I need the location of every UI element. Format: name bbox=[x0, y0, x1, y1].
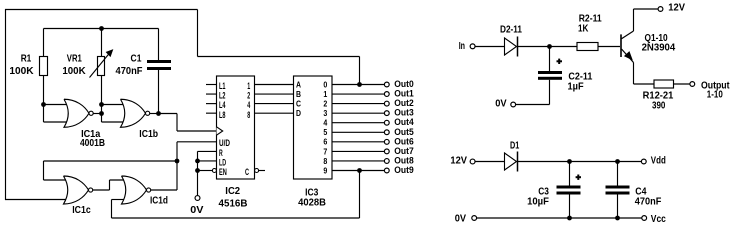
node: C4 bottom bbox=[615, 216, 620, 221]
svg-text:IC1c: IC1c bbox=[72, 204, 91, 216]
svg-text:100K: 100K bbox=[9, 65, 34, 77]
wires: IC3 outputs to Out terminals bbox=[332, 85, 385, 171]
svg-text:IC2: IC2 bbox=[225, 185, 240, 197]
svg-text:12V: 12V bbox=[450, 155, 467, 167]
terminal Out5 bbox=[384, 127, 413, 137]
node: R1 bottom / IC1a inputs bbox=[41, 102, 46, 107]
svg-text:470nF: 470nF bbox=[635, 195, 662, 207]
pin labels A B C D bbox=[296, 80, 301, 118]
svg-text:390: 390 bbox=[652, 99, 666, 111]
svg-text:Out7: Out7 bbox=[394, 146, 413, 156]
node: C3 top bbox=[567, 159, 572, 164]
terminal Output 1-10 bbox=[690, 79, 730, 100]
svg-text:3: 3 bbox=[323, 109, 327, 118]
wire: IC1a output to IC1b inputs bbox=[93, 105, 126, 123]
svg-text:0: 0 bbox=[323, 80, 327, 89]
op-amp gate IC1a (NOR 4001B) bbox=[64, 99, 105, 149]
svg-text:1: 1 bbox=[323, 90, 327, 99]
svg-text:Out2: Out2 bbox=[394, 98, 413, 108]
svg-text:1: 1 bbox=[247, 81, 250, 91]
resistor R12-21 390 bbox=[643, 80, 674, 111]
svg-text:4001B: 4001B bbox=[80, 137, 105, 149]
IC U3: decoder IC3 4028B box bbox=[294, 76, 333, 208]
svg-text:U/D: U/D bbox=[219, 138, 230, 148]
svg-text:9: 9 bbox=[323, 166, 327, 175]
svg-text:4: 4 bbox=[247, 100, 250, 110]
terminal 12V (top) bbox=[658, 2, 685, 14]
svg-text:Out9: Out9 bbox=[394, 165, 413, 175]
svg-text:D2-11: D2-11 bbox=[500, 23, 522, 35]
svg-text:1-10: 1-10 bbox=[707, 89, 723, 101]
svg-text:Out4: Out4 bbox=[394, 117, 414, 127]
svg-text:4: 4 bbox=[323, 119, 327, 128]
capacitor C1 470nF bbox=[116, 53, 172, 114]
svg-text:R: R bbox=[219, 148, 223, 158]
node: Out9 feedback junction bbox=[357, 168, 362, 173]
svg-text:In: In bbox=[459, 40, 465, 52]
wire: IC1d output node to U/D bbox=[177, 142, 217, 190]
wire: oscillator top rail bbox=[44, 29, 159, 61]
pin C output bubble and stub bbox=[245, 167, 265, 177]
terminal 0V (bottom) bbox=[455, 212, 477, 224]
pin labels L1 L2 L4 L8 and 1 2 4 8 bbox=[219, 81, 250, 120]
wire R12-21 to Output bbox=[674, 83, 691, 85]
svg-text:A: A bbox=[296, 80, 301, 89]
svg-text:C: C bbox=[296, 100, 301, 109]
wire emitter to R12-21 bbox=[634, 63, 655, 85]
svg-text:Out8: Out8 bbox=[394, 155, 413, 165]
pin stubs L1 L2 L4 L8 bbox=[206, 85, 217, 114]
terminal In bbox=[459, 40, 475, 52]
svg-text:L8: L8 bbox=[219, 110, 226, 120]
svg-text:2: 2 bbox=[247, 91, 250, 101]
terminal Vdd bbox=[641, 155, 665, 167]
transistor Q1-10 2N3904 bbox=[620, 31, 675, 63]
svg-text:4516B: 4516B bbox=[219, 198, 248, 210]
terminal Out1 bbox=[384, 89, 413, 99]
terminal Out4 bbox=[384, 117, 414, 127]
wire resistor to base bbox=[598, 46, 620, 48]
svg-text:1K: 1K bbox=[578, 22, 589, 34]
svg-text:7: 7 bbox=[323, 147, 327, 156]
pin LD wire and label bbox=[198, 157, 227, 167]
capacitor C3 10uF bbox=[527, 162, 581, 219]
wire cap to 0V bbox=[516, 104, 550, 106]
wire diode to resistor bbox=[518, 46, 578, 48]
svg-text:0V: 0V bbox=[495, 97, 506, 109]
wire: IC2 outputs to IC3 inputs bbox=[255, 85, 294, 114]
svg-text:6: 6 bbox=[323, 138, 327, 147]
wire: IC1c output to IC1d top input bbox=[93, 180, 126, 190]
node: IC1a output junction bbox=[99, 111, 104, 116]
node: Out0 feedback junction bbox=[357, 82, 362, 87]
terminal 0V (top right) bbox=[495, 97, 515, 109]
capacitor C4 470nF bbox=[606, 162, 662, 219]
svg-text:VR1: VR1 bbox=[67, 53, 82, 65]
node: VR1 top junction bbox=[99, 26, 104, 31]
svg-text:Vcc: Vcc bbox=[651, 213, 666, 225]
svg-text:Vdd: Vdd bbox=[651, 155, 666, 167]
node: IC1b output / C1 bottom bbox=[156, 111, 161, 116]
svg-text:L4: L4 bbox=[219, 100, 226, 110]
svg-text:Out5: Out5 bbox=[394, 127, 413, 137]
svg-text:C1: C1 bbox=[131, 53, 142, 65]
op-amp gate IC1d (NOR) bbox=[122, 176, 169, 207]
svg-text:2N3904: 2N3904 bbox=[642, 41, 676, 53]
svg-text:470nF: 470nF bbox=[116, 65, 144, 77]
svg-text:R1: R1 bbox=[21, 53, 32, 65]
wire: IC1a input tie bbox=[44, 105, 71, 123]
svg-text:5: 5 bbox=[323, 128, 327, 137]
svg-text:C: C bbox=[245, 167, 249, 177]
wire D1 to Vdd bbox=[518, 161, 642, 163]
svg-text:8: 8 bbox=[247, 110, 250, 120]
terminal Vcc bbox=[642, 213, 666, 225]
terminal Out3 bbox=[384, 108, 413, 118]
svg-text:10µF: 10µF bbox=[527, 196, 549, 208]
wire: IC1d output bbox=[151, 189, 177, 191]
svg-text:Out3: Out3 bbox=[394, 108, 413, 118]
svg-text:IC1b: IC1b bbox=[139, 128, 158, 140]
clock input triangle bbox=[217, 127, 223, 135]
svg-text:D1: D1 bbox=[510, 139, 519, 151]
svg-text:L1: L1 bbox=[219, 81, 226, 91]
pin EN wire, bubble and label bbox=[198, 167, 227, 177]
svg-text:D: D bbox=[296, 109, 301, 118]
resistor R1 100K bbox=[9, 53, 47, 105]
svg-text:Out0: Out0 bbox=[394, 79, 413, 89]
wire: feedback rail to IC1c top input bbox=[44, 161, 178, 180]
terminal Out2 bbox=[384, 98, 413, 108]
svg-text:IC1d: IC1d bbox=[150, 195, 168, 207]
node: LD junction bbox=[195, 159, 200, 164]
IC U2: counter IC2 4516B box bbox=[217, 76, 255, 210]
wire: IC1b output to IC2 clock bbox=[150, 114, 217, 132]
svg-text:LD: LD bbox=[219, 157, 226, 167]
node: EN junction bbox=[195, 168, 200, 173]
svg-text:Out1: Out1 bbox=[394, 89, 413, 99]
resistor VR1 100K (variable) bbox=[62, 50, 112, 105]
node: C4 top bbox=[615, 159, 620, 164]
svg-text:L2: L2 bbox=[219, 91, 226, 101]
svg-text:2: 2 bbox=[323, 100, 327, 109]
svg-text:12V: 12V bbox=[668, 2, 685, 14]
wire In to diode bbox=[475, 46, 504, 48]
node: VR1 bottom junction bbox=[99, 102, 104, 107]
diode D2-11 bbox=[500, 23, 522, 56]
svg-text:B: B bbox=[296, 90, 301, 99]
diode D1 bbox=[505, 139, 520, 171]
op-amp gate IC1c (NOR) bbox=[64, 176, 93, 216]
wire: outer feedback loop border bbox=[5, 9, 360, 200]
terminal 12V (bottom left) bbox=[450, 155, 475, 167]
wire: bottom 0V rail bbox=[477, 217, 642, 219]
pin R wire and label bbox=[198, 148, 223, 158]
terminal Out6 bbox=[384, 136, 413, 146]
terminal Out7 bbox=[384, 146, 413, 156]
capacitor C2-11 1uF bbox=[538, 47, 593, 105]
terminal Out9 bbox=[384, 165, 413, 175]
svg-text:4028B: 4028B bbox=[298, 196, 326, 208]
wire: R/LD/EN tie down to 0V bbox=[197, 151, 199, 195]
svg-text:100K: 100K bbox=[62, 65, 86, 77]
wire 12V to D1 bbox=[475, 161, 504, 163]
svg-text:Out6: Out6 bbox=[394, 136, 413, 146]
wire: bottom feedback to IC1d bottom input bbox=[112, 171, 360, 219]
svg-text:EN: EN bbox=[219, 167, 227, 177]
node: C3 bottom bbox=[567, 216, 572, 221]
pin labels 0-9 bbox=[323, 80, 327, 175]
svg-text:1µF: 1µF bbox=[568, 80, 585, 92]
svg-text:8: 8 bbox=[323, 157, 327, 166]
terminal Out8 bbox=[384, 155, 413, 165]
resistor R2-11 1K bbox=[577, 13, 602, 51]
wire collector to 12V bbox=[634, 9, 659, 31]
svg-text:0V: 0V bbox=[455, 212, 466, 224]
ground terminal 0V under IC2 bbox=[190, 196, 203, 216]
op-amp gate IC1b (NOR) bbox=[121, 99, 159, 140]
node: C2-11 top junction bbox=[547, 44, 552, 49]
terminal Out0 bbox=[384, 79, 413, 89]
node: feedback junction bbox=[175, 159, 180, 164]
svg-text:0V: 0V bbox=[190, 204, 203, 216]
